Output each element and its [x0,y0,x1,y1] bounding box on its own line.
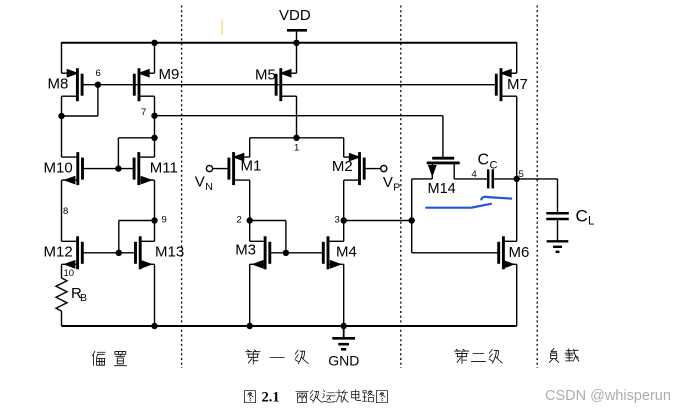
wire left bus M12 source to resistor [61,264,63,278]
wire M9 source from rail [154,43,156,73]
svg-text:6: 6 [96,68,101,79]
svg-text:CSDN @whisperun: CSDN @whisperun [545,388,671,404]
wire M13 source to rail [154,264,156,326]
svg-text:2: 2 [237,215,242,226]
wire bottom ground rail [62,325,517,327]
svg-text:N: N [205,181,213,193]
wire left bus M8 drain to M10 drain [61,96,63,157]
wire left bus M10 source to M12 drain [61,180,63,241]
wire M6 source to rail corner [516,264,518,326]
node 5 [514,176,520,182]
wire M3 source to rail [249,264,251,326]
wire M5 drain to node 1 [296,96,298,138]
svg-text:9: 9 [162,215,167,226]
svg-text:M2: M2 [332,158,353,175]
transistor M12 [44,236,83,269]
svg-text:7: 7 [141,107,146,118]
svg-text:2.1: 2.1 [262,390,280,406]
wire M2 drain to M4 drain (node 3) [343,180,345,241]
node dot M10/M11 gate junction [115,165,121,171]
transistor M1 [229,152,261,185]
node 3 [341,217,347,223]
section divider dashed line 1 [181,6,183,369]
wire M5 source to rail [296,43,298,73]
wire M6 gate branch [411,221,413,253]
svg-text:1: 1 [294,143,299,154]
wire M4 source to rail [343,264,345,326]
transistor M14 (rotated) [412,158,488,220]
node 6 [95,82,101,88]
svg-text:10: 10 [64,268,75,279]
wire gate loop up to node7 column [117,138,119,169]
svg-text:M7: M7 [507,76,528,93]
capacitor CL [546,207,595,228]
wire VDD stub [296,30,298,43]
svg-text:L: L [588,216,595,228]
svg-text:V: V [383,174,393,191]
svg-text:GND: GND [328,353,359,369]
wire M1 drain to M3 drain (node 2) [249,180,251,241]
node dot rail M4 GND [341,323,347,329]
svg-text:C: C [490,160,498,172]
svg-text:P: P [393,182,400,194]
svg-text:V: V [195,174,205,191]
transistor M11 [134,152,178,185]
svg-text:3: 3 [335,215,340,226]
section divider dashed line 3 [536,6,538,369]
transistor M3 [235,236,270,269]
wire M1 source to node1 [249,138,251,157]
capacitor CC [478,152,498,189]
section label 第二级 (second stage) [454,349,502,363]
svg-text:C: C [576,207,588,226]
svg-text:M11: M11 [150,160,178,177]
wire M10-M11 gate line [83,168,135,170]
transistor M4 [323,236,357,269]
transistor M6 [499,236,530,269]
wire node 3 extension to M14/M6 [344,220,412,222]
wire CL to ground [557,220,559,241]
wire node6 loop down [97,85,99,116]
wire M11 source to M13 drain (node 9) [154,180,156,241]
section label 第一级 (first stage) [246,350,308,364]
svg-text:M12: M12 [44,244,73,261]
wire M7 source corner from rail [516,42,518,73]
transistor M13 [136,236,185,269]
transistor M7 [496,68,528,101]
node dot rail M3 [247,323,253,329]
node dot M12/M13 gate junction [116,250,122,256]
transistor M9 [134,66,179,101]
node dot M3/M4 gate junction [283,250,289,256]
ground symbol GND [328,326,359,369]
input terminal VN [195,166,229,194]
input terminal VP [364,166,400,194]
transistor M5 [255,67,297,102]
wire M3-M4 gate line [270,252,324,254]
yellow highlighter mark [221,20,223,36]
wire top VDD rail [62,42,517,44]
wire left bus upper [61,42,63,73]
section label 偏置 (bias) [93,351,127,365]
wire bias gate line M8-M9-M5-M7 [82,84,496,86]
resistor RB [56,278,87,311]
node 7 [151,113,157,119]
node 9 [151,217,157,223]
svg-text:M3: M3 [235,242,256,259]
blue pen stroke upper [481,197,511,200]
wire node 1 rail [250,137,344,139]
wire M2 source to node1 [343,138,345,157]
wire CC to node 5 [493,178,517,180]
node dot rail M13 [151,323,157,329]
section divider dashed line 2 [400,6,402,369]
svg-text:M13: M13 [155,244,184,261]
svg-text:8: 8 [63,206,68,217]
transistor M8 [48,68,83,101]
node dot M14 source / M6 gate junction [409,217,415,223]
svg-text:VDD: VDD [279,7,311,24]
wire node7 horizontal to M14 gate [155,115,443,117]
node dot left bus node 6 [58,113,64,119]
wire M7 drain down through node5 to M6 drain [516,96,518,241]
ground symbol below CL [547,241,569,252]
svg-text:M10: M10 [44,160,73,177]
svg-text:M6: M6 [509,244,530,261]
svg-text:B: B [80,292,87,304]
wire M12-M13 gate line [82,252,135,254]
svg-text:M8: M8 [48,76,69,93]
wire node2 loop to gate junction [250,220,286,222]
wire gate loop up to node 9 [118,221,120,253]
wire RB to ground rail [61,311,63,326]
svg-text:4: 4 [472,169,477,180]
node dot top rail at M5 column [293,40,299,46]
section label 负载 (load) [549,348,579,362]
transistor M2 [332,152,364,185]
node dot top rail at M9 column [151,40,157,46]
node 1 [293,135,299,141]
svg-text:C: C [478,152,490,169]
wire node5 to CL [517,178,558,180]
svg-text:M5: M5 [255,67,276,84]
blue pen stroke lower [426,204,491,208]
node 2 [247,217,253,223]
wire M9 drain to M11 drain (node 7) [154,96,156,157]
svg-text:M4: M4 [336,244,357,261]
svg-text:M14: M14 [428,181,456,197]
transistor M10 [44,152,83,185]
svg-text:M1: M1 [241,158,262,175]
svg-text:M9: M9 [159,66,180,83]
caption 图 2.1 两级运放电路图 [244,390,387,406]
node dot gate loop M10/M11 tap [151,135,157,141]
